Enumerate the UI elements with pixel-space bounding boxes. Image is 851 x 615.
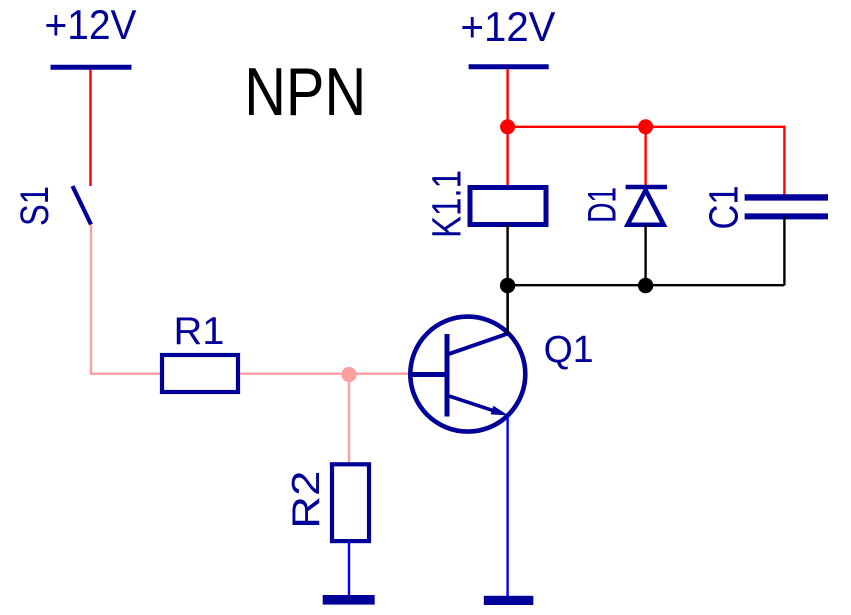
transistor Q1: [409, 317, 525, 432]
svg-text:D1: D1: [581, 187, 625, 223]
power rail bar (right +12V): [469, 64, 549, 69]
wire black: relay bottom to collector: [506, 225, 508, 335]
svg-text:R1: R1: [174, 310, 225, 353]
wire salmon: corner to R1: [90, 373, 160, 375]
svg-text:NPN: NPN: [244, 54, 366, 130]
wire red: down to relay K1.1: [506, 127, 508, 186]
switch S1 blade: [73, 186, 92, 225]
wire red: top horizontal bus: [508, 126, 785, 128]
capacitor C1 bottom plate: [745, 213, 828, 219]
wire black: diode bottom down: [644, 225, 646, 285]
Q1 base lead: [409, 372, 447, 377]
ground (under Q1): [484, 596, 534, 605]
wire red: down to capacitor C1: [783, 126, 785, 196]
wire black: capacitor bottom down: [783, 216, 785, 285]
Q1 emitter stroke: [449, 396, 498, 412]
node junction dot (red, over K1.1): [500, 119, 515, 134]
wire red: down to diode D1: [644, 127, 646, 187]
wire salmon: switch down: [90, 225, 92, 374]
Q1 base bar: [445, 334, 450, 417]
svg-text:R2: R2: [285, 471, 328, 529]
svg-text:+12V: +12V: [461, 3, 556, 50]
wire salmon: node down to R2: [348, 375, 350, 464]
node junction dot (base node, salmon): [341, 367, 356, 382]
Q1 body circle: [410, 317, 525, 432]
svg-text:C1: C1: [701, 186, 747, 230]
node junction dot (red, over D1): [638, 119, 653, 134]
node junction dot (black, under K1.1): [500, 278, 515, 293]
capacitor C1 top plate: [745, 194, 828, 200]
wire salmon: R1 to transistor base: [240, 373, 410, 375]
svg-text:S1: S1: [13, 186, 57, 226]
Q1 collector stroke: [447, 334, 508, 355]
wire red: right rail down: [506, 69, 508, 127]
svg-text:K1.1: K1.1: [424, 170, 470, 238]
relay coil K1.1: [470, 188, 546, 225]
wire black: node to Q1 collector: [506, 293, 508, 334]
diode D1 cathode bar: [626, 185, 667, 190]
wire red: left rail to switch: [89, 70, 91, 186]
node junction dot (black, under D1): [638, 278, 653, 293]
diode D1 triangle: [628, 190, 664, 225]
wire blue: Q1 emitter to ground: [506, 416, 508, 596]
resistor R1: [162, 355, 238, 392]
resistor R2: [332, 464, 369, 541]
svg-text:+12V: +12V: [45, 1, 137, 48]
wire black: bottom horizontal bus: [508, 284, 785, 286]
svg-text:Q1: Q1: [544, 329, 594, 371]
wire blue: R2 to ground: [348, 543, 350, 597]
power rail bar (left +12V): [51, 65, 132, 70]
Q1 emitter arrowhead: [491, 406, 509, 416]
ground (under R2): [323, 595, 375, 605]
